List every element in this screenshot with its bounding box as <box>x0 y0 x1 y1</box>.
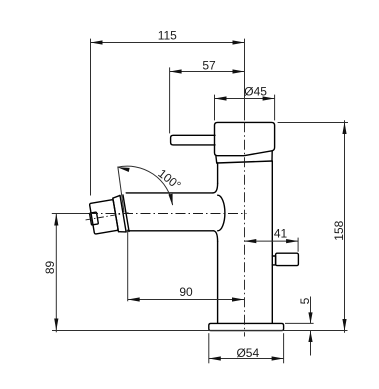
svg-text:5: 5 <box>298 297 312 304</box>
svg-text:41: 41 <box>274 227 288 241</box>
svg-text:90: 90 <box>179 285 193 299</box>
svg-text:115: 115 <box>158 28 177 42</box>
svg-text:158: 158 <box>332 220 346 240</box>
svg-text:57: 57 <box>202 59 216 73</box>
svg-text:89: 89 <box>43 261 57 275</box>
svg-text:Ø54: Ø54 <box>236 346 259 360</box>
svg-text:Ø45: Ø45 <box>244 84 267 98</box>
